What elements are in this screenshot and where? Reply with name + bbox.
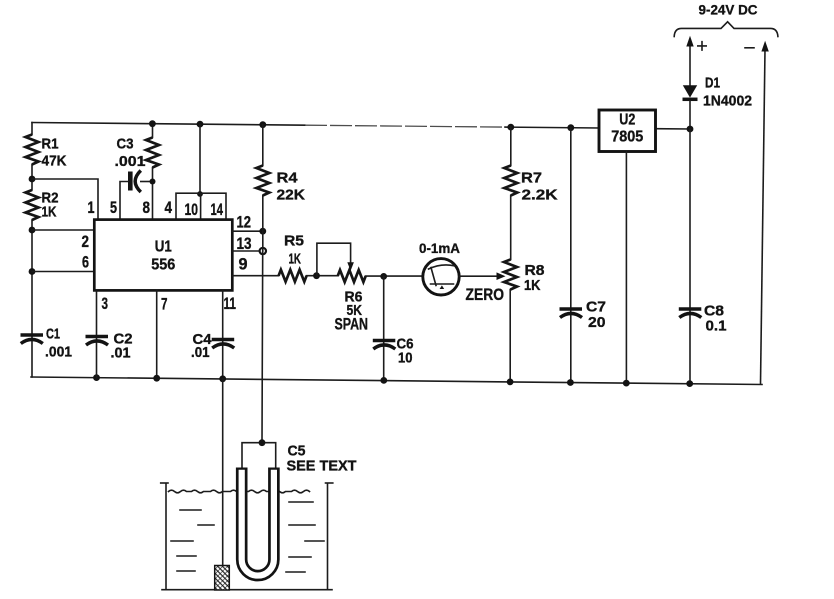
supply + arrow [686,36,693,85]
svg-text:D1: D1 [705,75,720,92]
wire pin5 lead to C3 [120,182,128,220]
junction rail R7 [507,124,514,131]
capacitor C8 [679,303,727,335]
svg-text:1K: 1K [42,204,57,221]
wire meter to R8 wiper arrow [459,272,505,280]
resistor R4 [256,125,305,251]
wire top rail stub U2 to D1 [656,128,691,130]
svg-text:556: 556 [151,257,175,274]
svg-text:0.1: 0.1 [706,318,727,335]
junction U2 out / D1 / C8 [687,126,694,133]
water line [169,490,310,493]
wire pin 13 [233,250,263,252]
op-amp U1 556 timer box [94,220,232,291]
junction R1/R2 [29,176,36,183]
wire top rail [32,123,599,129]
junction pin2 node [29,227,36,234]
svg-text:14: 14 [211,201,224,219]
junction rail U2 gnd [623,380,630,387]
wire to pin 6 [32,271,94,273]
wire rail to pins 10/14 [199,124,201,193]
wire U2 ground pin [625,152,627,384]
potentiometer R6 wiper link [317,243,354,276]
capacitor C6 [373,336,414,367]
junction rail C7 [567,124,574,131]
resistor R6 [335,270,369,334]
svg-text:9-24V DC: 9-24V DC [699,2,758,18]
wire C3 to pin8 [141,181,153,183]
wire ground probe into tank [222,379,224,566]
junction pin13 open node [260,248,266,254]
svg-text:U1: U1 [155,239,172,256]
svg-text:R1: R1 [42,136,59,153]
svg-text:.001: .001 [45,344,72,361]
svg-text:R7: R7 [521,170,542,187]
svg-text:.01: .01 [191,344,210,361]
diode D1 1N4002 [683,75,753,110]
junction rail C2/pin3 [93,374,100,381]
wire C7 column [570,128,572,383]
U1 pins 10/14 box [176,193,226,219]
junction pin6 node [29,268,36,275]
capacitor C5 probe bracket [242,439,357,474]
wire pin8 lead [152,124,154,220]
junction rail C7 bottom [567,379,574,386]
resistor R8 potentiometer [504,260,545,295]
svg-text:7: 7 [161,296,168,314]
svg-text:U2: U2 [619,112,635,129]
svg-text:2.2K: 2.2K [522,187,558,204]
wire R5 to R6 [307,275,338,277]
svg-text:.01: .01 [111,345,131,362]
capacitor C2 [86,331,133,362]
svg-text:20: 20 [588,314,606,331]
svg-text:8: 8 [143,199,151,217]
junction rail 10-14 [197,121,204,128]
junction rail C8 [686,380,693,387]
junction R5/R6 wiper [313,272,320,279]
wire R8 to bottom rail [509,290,511,382]
svg-text:2: 2 [82,233,90,251]
meter M1 0-1mA [419,240,460,295]
svg-text:SEE TEXT: SEE TEXT [287,458,357,475]
junction pin12/R4 [259,228,266,235]
svg-text:6: 6 [82,254,89,272]
junction C3/pin8 [150,179,156,185]
svg-text:4: 4 [165,199,173,217]
junction rail pin11/probe [219,375,226,382]
wire pin 11 column [222,291,224,379]
svg-text:47K: 47K [42,153,67,170]
svg-text:R5: R5 [284,232,304,249]
svg-text:SPAN: SPAN [335,316,369,334]
wire C6 column [383,276,385,380]
capacitor C4 [191,331,234,361]
supply - arrow [761,41,769,384]
svg-text:1K: 1K [289,251,302,268]
wire pin 12 [233,230,263,232]
wire D1 to node [689,101,691,129]
wire R7 to R8 [510,196,512,260]
svg-text:9: 9 [239,256,248,274]
wire pin 3 column [96,291,98,378]
svg-text:1N4002: 1N4002 [703,93,752,110]
capacitor C3 [115,135,146,192]
svg-text:7805: 7805 [611,129,643,146]
resistor R2 [26,190,59,221]
junction R6/C6 [380,273,387,280]
capacitor C7 [560,299,607,332]
junction rail C6 [380,377,387,384]
svg-text:11: 11 [224,295,237,313]
junction rail R4 [259,121,266,128]
svg-text:5: 5 [110,199,117,217]
brace supply [674,22,778,37]
wire R1-R2 node to pin 1 [32,179,98,220]
junction rail R8 [507,379,514,386]
resistor R1 [26,135,67,170]
probe U-tube [242,468,274,576]
junction 10/14 box top [197,191,203,197]
svg-text:.001: .001 [115,153,146,170]
electrode plate [215,566,230,591]
svg-text:C3: C3 [117,135,134,152]
junction rail R3 [149,120,156,127]
junction rail pin7 [153,375,160,382]
svg-text:1K: 1K [524,277,541,294]
label minus [745,47,754,49]
svg-text:R4: R4 [277,170,299,187]
resistor R7 [504,127,557,203]
label + [698,42,706,50]
liquid dashes [171,502,324,572]
wire bottom rail [31,377,762,385]
wire to pin 2 [32,229,94,231]
svg-text:12: 12 [237,214,252,232]
resistor R5 [279,232,307,281]
tank walls [161,483,333,590]
svg-text:3: 3 [102,295,109,313]
svg-text:10: 10 [398,350,413,367]
wire C8 column [689,129,691,384]
svg-text:C7: C7 [586,299,606,316]
regulator U2 7805 [599,110,656,152]
wire pin 7 column [156,291,158,379]
svg-text:10: 10 [185,201,199,219]
capacitor C1 [21,326,73,361]
svg-text:ZERO: ZERO [466,286,505,304]
wire left rail [31,123,33,378]
resistor R3 unlabeled [146,138,159,168]
svg-text:1: 1 [88,199,95,217]
wire R6 to meter [366,275,423,277]
svg-text:0-1mA: 0-1mA [419,240,460,256]
svg-text:22K: 22K [277,187,306,204]
svg-text:C1: C1 [46,326,60,343]
wire node13 down to probe C5 [261,251,264,443]
wire pin 9 to R5 [233,275,279,277]
